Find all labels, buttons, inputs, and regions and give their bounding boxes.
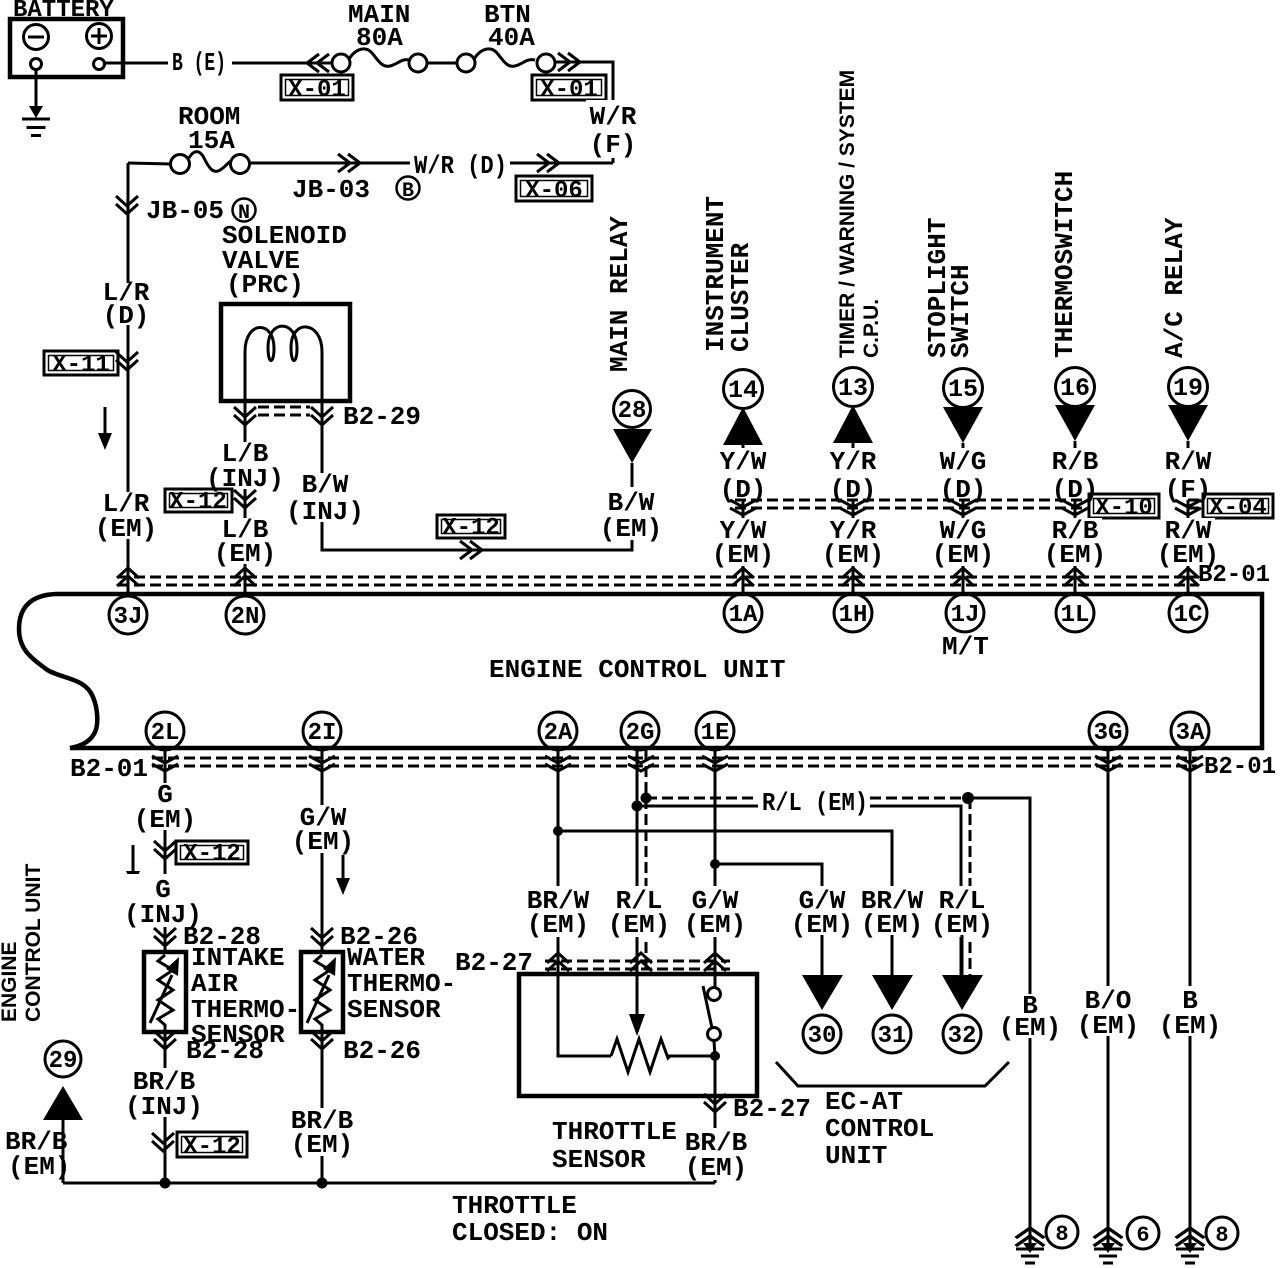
wire 2L G <box>164 750 167 1183</box>
connector 3G <box>1089 712 1127 750</box>
svg-text:(EM): (EM) <box>95 514 157 544</box>
X-12 connector box (2) <box>437 515 505 542</box>
flow arrow <box>336 855 350 895</box>
svg-text:31: 31 <box>878 1023 907 1050</box>
instrument cluster <box>701 196 763 594</box>
wire 2A BR/W <box>557 750 560 974</box>
G (EM) label <box>134 780 196 835</box>
R/L (EM) horizontal label <box>758 786 870 818</box>
BR/B (EM) label 2I <box>288 1106 358 1160</box>
svg-text:2L: 2L <box>151 720 180 747</box>
svg-text:R/W: R/W <box>1165 447 1212 477</box>
X-12 connector box (3) <box>176 841 248 868</box>
B2-26 connector <box>311 928 333 946</box>
EC-AT bracket <box>776 1062 1009 1086</box>
svg-text:THROTTLE: THROTTLE <box>452 1191 577 1221</box>
svg-text:(EM): (EM) <box>8 1152 70 1182</box>
X-12 connector box (1) <box>165 489 232 516</box>
water thermosensor <box>301 943 456 1032</box>
svg-text:15: 15 <box>948 375 978 404</box>
R/L (EM) label 32 <box>931 886 994 940</box>
G/W (EM) label 30 <box>791 886 853 940</box>
svg-text:16: 16 <box>1060 374 1090 403</box>
svg-text:(EM): (EM) <box>608 910 670 940</box>
svg-text:UNIT: UNIT <box>825 1141 887 1171</box>
svg-text:W/R: W/R <box>590 102 637 132</box>
X-01 connector box (right) <box>532 75 606 104</box>
flow arrow <box>98 407 112 450</box>
intake air thermosensor <box>144 943 300 1050</box>
BR/W (EM) label 31 <box>858 886 926 940</box>
svg-text:19: 19 <box>1173 374 1203 403</box>
svg-text:(EM): (EM) <box>600 514 662 544</box>
throttle sensor box <box>519 974 757 1175</box>
ground (B/O EM) with circle 6 <box>1094 1217 1159 1263</box>
connector chevron into X-01 <box>307 54 329 72</box>
connector 1H <box>834 594 872 632</box>
svg-text:8: 8 <box>1215 1223 1228 1248</box>
svg-text:THROTTLE: THROTTLE <box>552 1117 677 1147</box>
svg-text:28: 28 <box>618 398 647 425</box>
wire W/R (F) <box>554 62 613 163</box>
svg-text:1J: 1J <box>951 602 980 629</box>
ground (B EM 3A) with circle 8 <box>1176 1217 1238 1263</box>
ground bus wire <box>63 1182 715 1185</box>
connector 2A <box>539 712 577 750</box>
svg-text:(EM): (EM) <box>214 539 276 569</box>
triangle 30 <box>802 975 843 1053</box>
G/W (EM) label 2I <box>292 803 354 857</box>
G/W (EM) label 1E <box>684 886 746 940</box>
X-10 connector box <box>1089 494 1159 522</box>
svg-text:TIMER / WARNING / SYSTEM: TIMER / WARNING / SYSTEM <box>836 70 859 358</box>
wire L/B 2N <box>244 401 247 594</box>
svg-text:W/G: W/G <box>940 447 987 477</box>
wire W/R (D) row <box>248 162 613 165</box>
svg-text:B2-26: B2-26 <box>343 1036 421 1066</box>
engine control unit box <box>19 594 1262 748</box>
svg-text:SENSOR: SENSOR <box>347 995 441 1025</box>
BR/B (INJ) label <box>125 1067 203 1122</box>
svg-text:2G: 2G <box>626 720 655 747</box>
fuse ROOM 15A <box>128 102 250 174</box>
X-01 connector box (left) <box>281 75 353 104</box>
svg-text:2A: 2A <box>544 720 573 747</box>
B2-01 top dashed row <box>118 577 1197 585</box>
svg-text:6: 6 <box>1136 1223 1149 1248</box>
svg-text:1L: 1L <box>1061 602 1090 629</box>
svg-text:(EM): (EM) <box>822 540 884 570</box>
svg-text:B2-29: B2-29 <box>343 402 421 432</box>
svg-text:X-12: X-12 <box>183 1134 241 1161</box>
svg-text:B/W: B/W <box>302 470 349 500</box>
svg-text:13: 13 <box>838 374 868 403</box>
svg-text:B (E): B (E) <box>172 48 226 78</box>
svg-text:(EM): (EM) <box>712 540 774 570</box>
svg-text:CLUSTER: CLUSTER <box>726 242 756 352</box>
L/B (EM) label <box>214 515 276 569</box>
svg-text:(EM): (EM) <box>999 1013 1061 1043</box>
svg-text:(EM): (EM) <box>292 827 354 857</box>
connector 1E <box>696 712 734 750</box>
wire 2I G/W <box>321 750 324 1183</box>
svg-text:1C: 1C <box>1174 602 1203 629</box>
(EM) labels row <box>712 516 774 570</box>
svg-text:ENGINE: ENGINE <box>0 941 21 1022</box>
svg-text:A/C RELAY: A/C RELAY <box>1160 217 1190 358</box>
svg-text:(F): (F) <box>590 130 637 160</box>
X-12 connector box (4) <box>177 1132 247 1161</box>
mid connector row dashes <box>735 500 1203 508</box>
svg-text:8: 8 <box>1055 1222 1068 1247</box>
svg-text:Y/R: Y/R <box>830 447 877 477</box>
svg-text:X-11: X-11 <box>52 352 110 379</box>
svg-text:CLOSED: ON: CLOSED: ON <box>452 1218 608 1248</box>
connector 1J <box>942 594 989 662</box>
svg-text:ENGINE CONTROL UNIT: ENGINE CONTROL UNIT <box>489 655 785 685</box>
wire 1E G/W <box>714 750 717 974</box>
R/L (EM) branch solid <box>637 806 961 975</box>
connector 1L <box>1056 594 1094 632</box>
JB-05 connector chevron <box>116 196 138 214</box>
B (EM) label <box>999 991 1061 1043</box>
svg-text:X-01: X-01 <box>288 77 346 104</box>
svg-text:X-12: X-12 <box>442 515 500 542</box>
wires to EC-AT triangles <box>822 935 962 975</box>
svg-text:JB-03: JB-03 <box>292 175 370 205</box>
a/c relay <box>1160 217 1208 594</box>
svg-text:B: B <box>402 180 414 203</box>
svg-text:3A: 3A <box>1176 720 1205 747</box>
ground (battery) <box>22 70 50 136</box>
svg-text:30: 30 <box>808 1023 837 1050</box>
svg-text:3J: 3J <box>114 604 143 631</box>
svg-text:C.P.U.: C.P.U. <box>860 299 883 358</box>
svg-text:X-12: X-12 <box>169 489 227 516</box>
L/R (EM) label <box>95 489 157 544</box>
svg-text:B2-01: B2-01 <box>1198 562 1270 589</box>
svg-text:JB-05: JB-05 <box>146 196 224 226</box>
svg-text:EC-AT: EC-AT <box>825 1087 903 1117</box>
svg-text:X-10: X-10 <box>1095 495 1153 522</box>
wire 3G B/O <box>1107 750 1110 1247</box>
wire battery B(E) to fuses <box>105 62 333 65</box>
(D) labels row <box>717 447 769 505</box>
flow arrow <box>126 845 140 888</box>
svg-text:(EM): (EM) <box>932 540 994 570</box>
BR/W branch <box>558 831 892 975</box>
svg-text:(EM): (EM) <box>685 1153 747 1183</box>
B/W (INJ) label <box>286 470 364 527</box>
B (EM) wire from junction <box>968 798 1030 1247</box>
L/B (INJ) label <box>206 439 284 494</box>
svg-text:B2-01: B2-01 <box>1204 754 1276 781</box>
wire B/W from solenoid to main relay <box>322 401 632 550</box>
svg-text:40A: 40A <box>488 23 535 53</box>
B2-29 connector chevrons <box>234 407 256 425</box>
svg-text:1E: 1E <box>701 720 730 747</box>
svg-text:THERMOSWITCH: THERMOSWITCH <box>1050 171 1080 358</box>
svg-text:CONTROL UNIT: CONTROL UNIT <box>22 864 45 1022</box>
BR/W (EM) label 2A <box>524 886 592 940</box>
B/O (EM) label <box>1077 986 1139 1041</box>
svg-text:1H: 1H <box>839 602 868 629</box>
thermoswitch <box>1050 171 1095 594</box>
wire L/R down left <box>127 163 130 594</box>
svg-text:R/L (EM): R/L (EM) <box>762 788 868 818</box>
fuse BTN 40A <box>457 0 555 72</box>
connector 2G <box>621 712 659 750</box>
connector 29 <box>43 1041 83 1183</box>
stoplight switch <box>923 218 983 594</box>
circled N <box>233 199 256 226</box>
svg-text:29: 29 <box>49 1048 78 1075</box>
svg-text:2N: 2N <box>231 604 260 631</box>
svg-text:CONTROL: CONTROL <box>825 1114 934 1144</box>
svg-text:B2-27: B2-27 <box>733 1094 811 1124</box>
connector 1C <box>1169 594 1207 632</box>
R/L (EM) label 2G <box>608 886 670 940</box>
B2-28 connector <box>154 928 176 946</box>
connector 2N <box>226 596 264 634</box>
svg-text:X-12: X-12 <box>183 841 241 868</box>
svg-text:(EM): (EM) <box>1077 1011 1139 1041</box>
connector 1A <box>724 594 762 632</box>
X-04 connector box <box>1203 494 1273 522</box>
connector 3J <box>109 596 147 634</box>
svg-text:2I: 2I <box>308 720 337 747</box>
svg-text:(EM): (EM) <box>684 910 746 940</box>
svg-text:B2-28: B2-28 <box>186 1036 264 1066</box>
svg-text:B2-01: B2-01 <box>70 754 148 784</box>
triangle 32 <box>942 975 983 1053</box>
svg-text:R/B: R/B <box>1052 447 1099 477</box>
wire 3A B <box>1189 750 1192 1247</box>
svg-text:3G: 3G <box>1094 720 1123 747</box>
svg-text:M/T: M/T <box>942 632 989 662</box>
G (INJ) label <box>124 874 202 930</box>
main relay <box>605 216 652 463</box>
connector 2I <box>303 712 341 750</box>
solenoid valve (PRC) <box>221 221 350 401</box>
connector 3A <box>1171 712 1209 750</box>
timer/warning/system cpu <box>833 70 883 594</box>
X-06 connector box <box>516 176 592 205</box>
svg-text:1A: 1A <box>729 602 758 629</box>
svg-text:(EM): (EM) <box>527 910 589 940</box>
X-11 connector box <box>44 351 118 379</box>
svg-text:SWITCH: SWITCH <box>946 264 976 358</box>
svg-text:32: 32 <box>948 1023 977 1050</box>
svg-text:MAIN RELAY: MAIN RELAY <box>605 216 635 372</box>
triangle 31 <box>872 975 913 1053</box>
L/R (D) label <box>100 278 152 331</box>
svg-text:SENSOR: SENSOR <box>552 1145 646 1175</box>
svg-text:(INJ): (INJ) <box>286 497 364 527</box>
B/W (EM) label <box>600 487 662 544</box>
svg-text:(EM): (EM) <box>1159 1011 1221 1041</box>
battery <box>10 0 123 77</box>
G/W branch <box>715 864 822 975</box>
fuse MAIN 80A <box>332 0 427 72</box>
svg-text:14: 14 <box>728 376 758 405</box>
circled B <box>397 177 420 204</box>
svg-text:X-06: X-06 <box>525 178 583 205</box>
BR/B (EM) label throttle <box>714 1096 717 1183</box>
junction dots <box>553 826 563 836</box>
svg-text:X-01: X-01 <box>540 77 598 104</box>
connector 2L <box>146 712 184 750</box>
svg-text:X-04: X-04 <box>1209 495 1267 522</box>
svg-text:(EM): (EM) <box>291 1130 353 1160</box>
coil <box>245 326 322 361</box>
svg-text:(EM): (EM) <box>1044 540 1106 570</box>
svg-text:(D): (D) <box>103 301 150 331</box>
svg-text:(EM): (EM) <box>134 805 196 835</box>
svg-text:(INJ): (INJ) <box>125 1092 203 1122</box>
R/L (EM) branch dashed <box>646 797 962 800</box>
svg-text:Y/W: Y/W <box>720 447 767 477</box>
svg-text:(PRC): (PRC) <box>226 270 304 300</box>
svg-text:W/R (D): W/R (D) <box>414 151 507 181</box>
ground (B EM) with circle 8 <box>1016 1216 1078 1263</box>
wire 2G R/L solid+dashed <box>636 750 639 974</box>
B (EM) label 3A <box>1159 986 1221 1041</box>
